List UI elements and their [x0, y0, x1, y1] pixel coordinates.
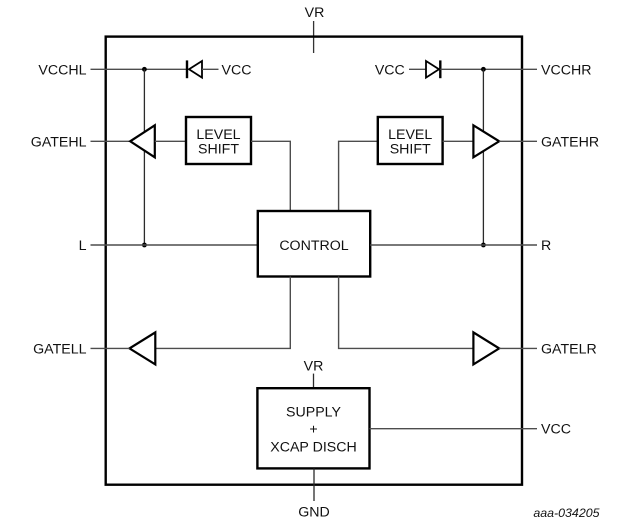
wire SUPPLY to VCC pin	[370, 428, 538, 430]
wire VCCHL to diode cathode	[91, 68, 187, 70]
buffer amplifier GATELL driver (points left)	[130, 332, 156, 364]
svg-text:CONTROL: CONTROL	[279, 238, 348, 254]
svg-text:VCC: VCC	[375, 62, 405, 78]
junction dot VCCHR / right rail	[481, 67, 486, 72]
svg-text:VCCHR: VCCHR	[541, 62, 591, 78]
svg-text:R: R	[541, 238, 551, 254]
svg-text:GATELR: GATELR	[541, 341, 597, 357]
junction dot VCCHL / left rail	[142, 67, 147, 72]
wire GATEHL to buffer tip	[91, 140, 132, 142]
wire CONTROL to GATELL buffer	[156, 277, 291, 349]
wire diode D2 cathode to VCCHR	[440, 68, 537, 70]
svg-text:GATEHL: GATEHL	[31, 134, 87, 150]
wire buffer base to LEVEL SHIFT (left)	[155, 140, 186, 142]
buffer amplifier GATEHR driver (points right)	[473, 125, 499, 157]
diode D2 cathode bar (right)	[439, 60, 441, 78]
box U1 LEVEL SHIFT (left)	[186, 117, 251, 164]
svg-text:GATEHR: GATEHR	[541, 134, 599, 150]
svg-text:SUPPLY: SUPPLY	[286, 405, 341, 421]
wire GND stub	[313, 468, 315, 501]
wire GATELL buffer tip to pin	[91, 347, 130, 349]
wire L to CONTROL	[91, 244, 258, 246]
svg-text:L: L	[79, 238, 87, 254]
junction dot L / left rail	[142, 243, 147, 248]
svg-text:VR: VR	[304, 359, 324, 375]
svg-text:VCC: VCC	[541, 422, 571, 438]
svg-text:XCAP DISCH: XCAP DISCH	[270, 440, 356, 456]
svg-text:SHIFT: SHIFT	[390, 141, 431, 157]
diode D1 cathode bar (left)	[186, 60, 188, 78]
wire left vertical rail VCCHL to L	[143, 69, 145, 245]
buffer amplifier GATELR driver (points right)	[473, 332, 499, 364]
svg-text:+: +	[309, 421, 317, 437]
wire LEVEL SHIFT (left) output to CONTROL	[251, 141, 290, 211]
box U2 LEVEL SHIFT (right)	[378, 117, 443, 164]
svg-text:VR: VR	[305, 5, 325, 21]
wire LEVEL SHIFT (right) to buffer base	[443, 140, 474, 142]
wire VR top stub	[313, 21, 315, 53]
svg-text:SHIFT: SHIFT	[198, 141, 239, 157]
buffer amplifier GATEHL driver (points left)	[130, 125, 155, 157]
wire CONTROL to LEVEL SHIFT (right)	[339, 141, 378, 211]
svg-text:aaa-034205: aaa-034205	[533, 506, 599, 520]
wire diode D1 anode stub	[202, 68, 219, 70]
diode D2 triangle (points right to VCCHR)	[426, 61, 439, 78]
diode D1 triangle (points left to VCCHL)	[189, 61, 202, 78]
box U3 CONTROL	[258, 211, 370, 277]
wire CONTROL to R	[370, 244, 537, 246]
outer block boundary	[106, 37, 522, 485]
wire GATELR buffer tip to pin	[499, 347, 537, 349]
wire GATEHR buffer tip to pin	[499, 140, 537, 142]
wire VCC to diode D2 anode	[409, 68, 426, 70]
wire CONTROL to GATELR buffer	[339, 277, 474, 349]
svg-text:VCC: VCC	[222, 62, 252, 78]
wire right vertical rail VCCHR to R	[482, 69, 484, 245]
box U4 SUPPLY + XCAP DISCH	[257, 388, 369, 468]
svg-text:GATELL: GATELL	[33, 341, 86, 357]
junction dot R / right rail	[481, 243, 486, 248]
svg-text:GND: GND	[298, 505, 330, 521]
wire VR stub to SUPPLY	[313, 374, 315, 389]
svg-text:VCCHL: VCCHL	[38, 62, 86, 78]
